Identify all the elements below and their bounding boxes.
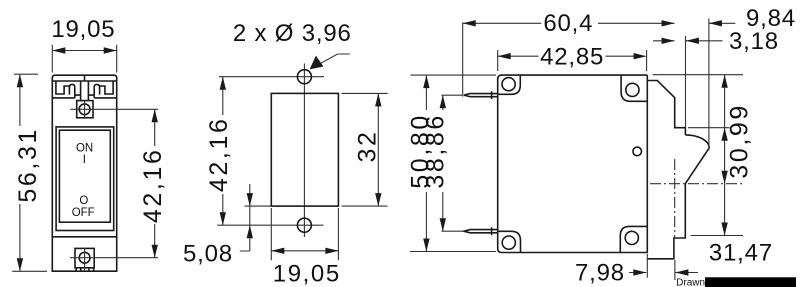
- rocker window outer: [56, 127, 114, 231]
- dimension 9,84: [709, 18, 736, 150]
- DIN clip center post: [81, 81, 89, 101]
- svg-text:32: 32: [353, 129, 381, 162]
- svg-text:ON: ON: [76, 142, 93, 154]
- dimension 38,86 (side, left inner): [442, 95, 464, 231]
- dimension 32 (middle, right): [342, 93, 388, 206]
- svg-text:5,08: 5,08: [183, 240, 233, 267]
- dimension 31,47 (bottom right): [691, 235, 743, 237]
- top-left rivet: [502, 78, 515, 91]
- bottom hole crosshair: [217, 224, 323, 226]
- toggle handle front edge: [685, 148, 709, 184]
- svg-text:60,4: 60,4: [543, 10, 593, 37]
- upper screw crosshair + 42,16 reference line: [70, 101, 158, 118]
- dimension 30,99 (right of handle): [653, 75, 743, 236]
- bezel lower profile: [647, 184, 685, 259]
- DIN clip left slot: [56, 81, 70, 94]
- dimension 19,05 (middle, bottom): [271, 208, 338, 260]
- dimension 42,16 (front, right): [154, 109, 156, 257]
- top mounting hole: [297, 70, 311, 84]
- top hole crosshair: [219, 76, 324, 78]
- DIN clip right shoulder: [88, 95, 94, 98]
- svg-text:56,31: 56,31: [14, 127, 42, 203]
- svg-text:42,85: 42,85: [540, 43, 604, 70]
- top-right rivet boss: [621, 75, 647, 101]
- svg-text:19,05: 19,05: [273, 261, 341, 287]
- top-right rivet: [626, 83, 639, 96]
- bottom-left rivet boss: [498, 231, 521, 252]
- dimension 5,08 (middle, bottom-left): [240, 184, 271, 251]
- svg-text:38,86: 38,86: [422, 113, 450, 189]
- lower section divider: [52, 236, 116, 238]
- upper terminal screw: [79, 104, 90, 115]
- lower terminal screw: [79, 252, 90, 263]
- bottom mounting hole: [297, 218, 311, 232]
- panel cutout rectangle: [271, 93, 338, 206]
- dimension 60,4 (top): [463, 23, 675, 97]
- cap inner top line: [52, 80, 116, 82]
- top-left rivet boss: [498, 75, 521, 94]
- dimension 19,05 (front, top): [52, 45, 116, 73]
- svg-text:O: O: [79, 195, 88, 207]
- bottom-left rivet: [502, 236, 515, 249]
- cap center seam: [84, 75, 86, 81]
- svg-text:30,99: 30,99: [725, 103, 753, 179]
- lower terminal screw block: [75, 248, 94, 267]
- svg-text:I: I: [83, 154, 86, 166]
- case pin hole: [633, 147, 642, 156]
- title block: redacted bar: [705, 277, 796, 287]
- lower blade stop tick: [491, 227, 493, 235]
- lower terminal blade: [464, 230, 498, 233]
- lower terminal feet: [76, 268, 94, 271]
- DIN clip right bump: [94, 84, 99, 95]
- dimension 3,18: [653, 36, 723, 128]
- DIN clip left bump: [69, 84, 74, 95]
- cap bottom line: [52, 97, 116, 99]
- dimension 50,80 (side, left outer): [410, 75, 496, 251]
- hole callout leader: [312, 54, 350, 68]
- svg-text:OFF: OFF: [72, 207, 95, 219]
- svg-text:3,18: 3,18: [729, 28, 779, 55]
- dimension 56,31 (front, left): [12, 74, 47, 271]
- svg-text:42,16: 42,16: [205, 117, 233, 193]
- rocker window inner: [59, 130, 110, 222]
- upper blade stop tick: [491, 91, 493, 99]
- handle centerline (dash-dot): [650, 159, 742, 238]
- dimension 42,85: [498, 50, 647, 71]
- bottom-right rivet boss: [620, 226, 647, 252]
- svg-text:2 x Ø 3,96: 2 x Ø 3,96: [233, 20, 352, 47]
- toggle handle arc: [685, 135, 709, 148]
- bottom-right rivet: [625, 231, 638, 244]
- svg-text:Drawn: Drawn: [676, 277, 705, 287]
- front body outline: [52, 75, 116, 271]
- bezel top chamfer: [647, 81, 685, 135]
- svg-text:42,16: 42,16: [139, 148, 167, 224]
- DIN clip right slot: [100, 81, 114, 94]
- upper terminal screw block: [77, 101, 93, 118]
- svg-text:7,98: 7,98: [575, 260, 625, 287]
- dimension 42,16 (middle, left): [222, 77, 224, 226]
- upper terminal blade: [464, 94, 498, 97]
- dimension 7,98 (bottom): [629, 254, 698, 280]
- DIN clip left shoulder: [75, 95, 81, 98]
- side body outline: [498, 75, 648, 252]
- lower screw crosshair + 42,16 reference line: [70, 248, 158, 271]
- svg-text:31,47: 31,47: [709, 240, 773, 267]
- svg-text:19,05: 19,05: [51, 16, 115, 43]
- cutout vertical centerline: [303, 64, 305, 238]
